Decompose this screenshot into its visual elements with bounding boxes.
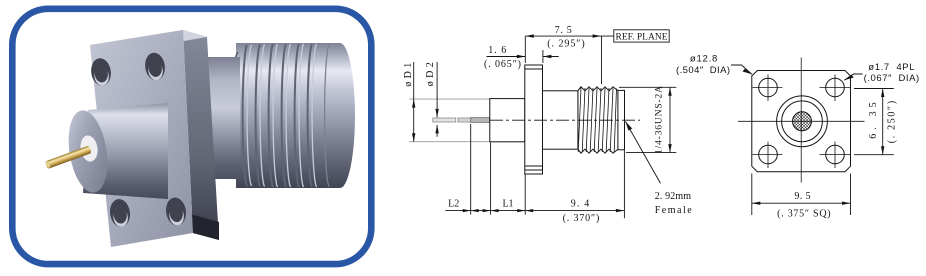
square flange w/ chamfers xyxy=(752,71,851,172)
svg-text:6. 35: 6. 35 xyxy=(868,102,879,138)
front view arrowheads xyxy=(743,69,885,205)
flange hole bottom-left (3D) xyxy=(108,198,132,228)
flange hole bottom-right (3D) xyxy=(164,196,188,226)
7.5 dim xyxy=(525,35,614,37)
svg-text:(.504″ DIA): (.504″ DIA) xyxy=(676,65,730,76)
rear threaded barrel xyxy=(231,43,355,188)
blue rounded frame xyxy=(12,9,371,264)
6.35 dim xyxy=(854,89,894,155)
mounting hole top-left xyxy=(759,78,778,97)
svg-text:7. 5: 7. 5 xyxy=(555,25,572,36)
svg-text:ø12.8: ø12.8 xyxy=(690,54,717,65)
REF PLANE box xyxy=(614,30,669,42)
flange right side face xyxy=(183,30,219,240)
neck xyxy=(543,91,578,149)
leaders xyxy=(731,65,752,74)
mounting hole bottom-right xyxy=(826,145,845,164)
mounting hole top-right xyxy=(826,78,845,97)
body block xyxy=(490,99,525,142)
svg-text:øD1: øD1 xyxy=(403,63,414,87)
svg-text:9. 4: 9. 4 xyxy=(571,198,589,209)
end section xyxy=(618,90,625,149)
svg-text:Female: Female xyxy=(655,205,693,216)
flange top face xyxy=(90,30,207,53)
hatched center contact xyxy=(793,112,812,131)
flange hole top-right (3D) xyxy=(143,51,166,81)
flange hole top-left (3D) xyxy=(89,57,112,87)
leader 2.92mm xyxy=(626,122,661,184)
gold pin xyxy=(45,145,92,169)
svg-text:9. 5: 9. 5 xyxy=(794,191,810,202)
svg-text:(. 375″ SQ): (. 375″ SQ) xyxy=(777,209,831,220)
phantom lines (D1 cylinder) xyxy=(409,99,490,142)
pin (side view) xyxy=(433,118,456,122)
svg-text:(.067″ DIA): (.067″ DIA) xyxy=(864,73,920,84)
1.6 dim xyxy=(487,56,559,58)
centerline xyxy=(490,119,640,121)
bottom dims chain xyxy=(445,210,624,212)
side view texts xyxy=(403,25,692,224)
arrowheads side view xyxy=(412,34,672,212)
flange front face xyxy=(90,30,193,247)
svg-text:(. 065″): (. 065″) xyxy=(484,59,521,70)
front cylinder xyxy=(83,103,168,199)
svg-text:(. 295″): (. 295″) xyxy=(547,39,585,50)
flange plate xyxy=(525,65,543,174)
mounting hole bottom-left xyxy=(759,145,778,164)
svg-text:ø1.7 4PL: ø1.7 4PL xyxy=(868,62,914,73)
interface inner ring xyxy=(782,101,823,142)
svg-text:L2: L2 xyxy=(448,199,459,210)
svg-text:(. 370″): (. 370″) xyxy=(563,213,600,224)
interface outer circle xyxy=(777,96,828,147)
svg-text:1/4-36UNS-2A: 1/4-36UNS-2A xyxy=(655,86,665,154)
oD2 dim xyxy=(436,62,438,137)
9.5 dim xyxy=(752,174,851,216)
side view dimensions xyxy=(414,30,677,219)
svg-text:REF. PLANE: REF. PLANE xyxy=(615,33,667,43)
oD1 dim xyxy=(413,62,415,142)
centerlines xyxy=(738,58,865,183)
svg-text:øD2: øD2 xyxy=(425,62,436,86)
svg-text:2. 92mm: 2. 92mm xyxy=(655,191,692,202)
dielectric xyxy=(78,134,100,163)
neck cylinder behind flange xyxy=(194,57,240,179)
svg-text:L1: L1 xyxy=(502,199,513,210)
hole crosshairs xyxy=(753,75,851,169)
thread dim xyxy=(619,87,676,152)
threads xyxy=(578,87,618,91)
front view texts xyxy=(676,54,919,220)
svg-text:1. 6: 1. 6 xyxy=(488,45,506,56)
svg-text:(. 250″): (. 250″) xyxy=(887,101,898,144)
